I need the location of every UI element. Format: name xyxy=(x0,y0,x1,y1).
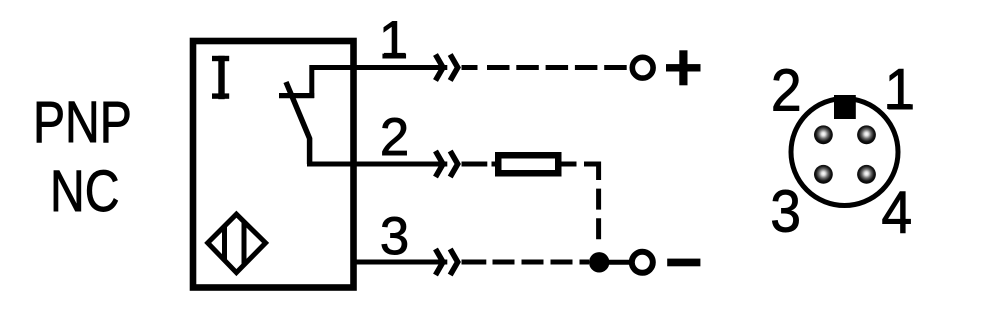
wire 2 dashed segment to junction xyxy=(584,164,599,248)
svg-text:NC: NC xyxy=(50,159,119,225)
proximity sensor symbol (diamond) xyxy=(208,214,266,273)
terminal circle pin1 xyxy=(632,57,653,78)
M12 connector face circle xyxy=(791,99,898,206)
svg-text:1: 1 xyxy=(885,57,915,122)
wire 1 solid segment xyxy=(310,65,448,70)
wire 1 solid tail after arrows xyxy=(462,65,478,70)
minus symbol (supply -) xyxy=(667,259,700,267)
sensor body box xyxy=(193,41,354,288)
connector label 1 base bar xyxy=(887,104,910,109)
svg-text:2: 2 xyxy=(771,57,802,123)
wire 2 stub into resistor xyxy=(492,162,496,167)
svg-text:3: 3 xyxy=(770,179,801,245)
label I (output indicator) xyxy=(212,56,229,99)
svg-text:3: 3 xyxy=(380,207,409,266)
wire 1 detachable-connector arrows xyxy=(436,55,458,81)
wire 1 label "1" base bar xyxy=(384,53,405,58)
wire 2 solid after resistor xyxy=(562,162,577,167)
connector pin 2 (top-left) xyxy=(814,125,833,144)
NC switch vertical stub from pin1 wire xyxy=(309,65,314,98)
wire 1 dashed segment xyxy=(487,65,630,70)
connector pin 1 (top-right) xyxy=(857,125,876,144)
wire 3 solid segment xyxy=(353,260,447,265)
svg-text:1: 1 xyxy=(379,11,408,70)
wire 2 solid tail after arrows xyxy=(462,162,488,167)
wire 3 solid tail after arrows xyxy=(462,260,487,265)
wire 3 solid from junction to terminal xyxy=(609,260,629,265)
NC switch contact bar xyxy=(279,93,314,98)
terminal circle pin3 xyxy=(632,252,653,273)
svg-text:4: 4 xyxy=(881,180,912,246)
wire 2 detachable-connector arrows xyxy=(436,151,458,177)
connector pin 3 (bottom-left) xyxy=(814,165,833,184)
svg-text:2: 2 xyxy=(380,108,409,167)
wire 3 detachable-connector arrows xyxy=(436,249,458,275)
load resistor R xyxy=(498,155,558,173)
wire 2 solid segment xyxy=(307,162,447,167)
wire 3 dashed segment xyxy=(493,260,590,265)
connector pin 4 (bottom-right) xyxy=(857,165,876,184)
svg-text:PNP: PNP xyxy=(33,89,132,155)
junction dot xyxy=(589,252,609,272)
NC switch lever xyxy=(286,82,310,164)
plus symbol (supply +) xyxy=(666,50,701,85)
connector keyway notch xyxy=(834,95,856,119)
